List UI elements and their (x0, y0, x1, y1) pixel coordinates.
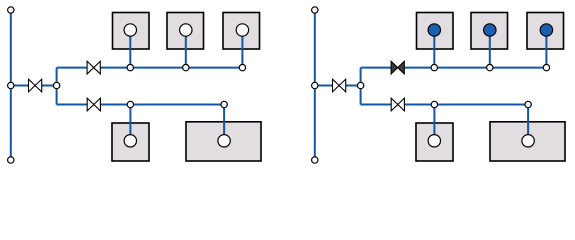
valve VB1 (333, 79, 346, 92)
wire branch riser (56, 68, 58, 105)
wire upper header (361, 67, 547, 69)
node J4 (183, 64, 189, 70)
tank TB3 (527, 13, 564, 50)
valve VB2 (391, 61, 404, 74)
node J4 (487, 64, 493, 70)
instrument IB4 (428, 135, 440, 147)
tank TA4 (112, 123, 149, 161)
wire lower header (57, 104, 225, 106)
node J5 (543, 64, 549, 70)
wire drop T4 (129, 105, 131, 141)
wire upper header (57, 67, 243, 69)
wire drop T2 (489, 30, 491, 68)
tank TB1 (417, 13, 454, 50)
node J3 (127, 64, 133, 70)
instrument IB5 (522, 135, 534, 147)
valve VA2 (87, 61, 100, 74)
wire lower header (361, 104, 528, 106)
wire feed branch (11, 85, 57, 87)
wire drop T1 (433, 30, 435, 68)
node J7 (221, 101, 227, 107)
valve VA1 (29, 79, 42, 92)
tank TA5 (186, 122, 261, 161)
node J1 (312, 82, 318, 88)
wire drop T5 (527, 105, 529, 141)
wire main vertical (10, 14, 12, 157)
instrument IB1 (428, 24, 440, 36)
wire drop T5 (223, 105, 225, 141)
node J2 (357, 82, 363, 88)
instrument IB2 (484, 24, 496, 36)
node J2 (53, 82, 59, 88)
instrument IA5 (218, 135, 230, 147)
wire drop T2 (185, 30, 187, 68)
wire drop T3 (545, 30, 547, 68)
valve VB3 (391, 98, 404, 111)
wire drop T4 (433, 105, 435, 141)
instrument IA3 (236, 24, 248, 36)
valve VA3 (87, 98, 100, 111)
wire main vertical (314, 14, 316, 157)
tank TA1 (113, 13, 150, 50)
node J5 (239, 64, 245, 70)
node J6 (127, 101, 133, 107)
node J1 (8, 82, 14, 88)
tank TB5 (490, 122, 565, 161)
wire branch riser (360, 68, 362, 105)
node source top (8, 7, 14, 13)
node J6 (431, 101, 437, 107)
instrument IA1 (124, 24, 136, 36)
wire drop T1 (129, 30, 131, 68)
instrument IA4 (124, 135, 136, 147)
left diagram (8, 7, 261, 163)
tank TB2 (471, 13, 508, 50)
tank TA3 (223, 13, 260, 50)
wire drop T3 (241, 30, 243, 68)
node source bottom (312, 157, 318, 163)
node source top (312, 7, 318, 13)
instrument IB3 (540, 24, 552, 36)
right diagram (312, 7, 565, 163)
wire feed branch (315, 85, 361, 87)
node J7 (525, 101, 531, 107)
tank TA2 (167, 13, 204, 50)
node J3 (431, 64, 437, 70)
node source bottom (8, 157, 14, 163)
instrument IA2 (180, 24, 192, 36)
tank TB4 (416, 123, 453, 161)
